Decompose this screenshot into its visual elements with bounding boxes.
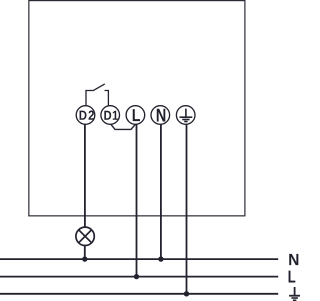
switch S1 blade (93, 84, 105, 91)
terminal D1 (101, 106, 120, 125)
label N (289, 254, 298, 265)
junction PE/PE bus (184, 291, 189, 296)
earth symbol (289, 287, 300, 300)
terminal D2 (76, 106, 95, 125)
wire N terminal to N bus (160, 124, 162, 259)
terminal N (151, 106, 170, 125)
L bus line (0, 276, 278, 278)
wire D2 to lamp (84, 124, 86, 227)
junction N/N bus (158, 256, 163, 261)
wire PE terminal to PE bus (186, 124, 188, 294)
switch S1 right lead (105, 91, 109, 107)
lamp E1 (76, 227, 94, 245)
terminal L (126, 106, 145, 125)
junction lamp/N bus (82, 256, 87, 261)
PE bus line (0, 293, 278, 295)
junction L/L bus (134, 274, 139, 279)
label L (289, 271, 296, 283)
wire L terminal to L bus (136, 124, 138, 277)
device outline (29, 1, 245, 216)
terminal PE earth mark (180, 109, 193, 122)
wire lamp to N bus (84, 245, 86, 259)
N bus line (0, 258, 278, 260)
terminal PE (176, 106, 195, 125)
jumper wire D1 to L (111, 124, 136, 129)
switch S1 left lead (86, 91, 93, 107)
lamp E1 cross (79, 230, 92, 243)
